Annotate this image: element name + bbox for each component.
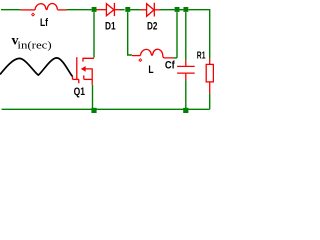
svg-text:L: L (148, 64, 153, 76)
svg-text:Lf: Lf (40, 17, 48, 29)
wire node A down to Q1 drain (93, 12, 95, 58)
bottom rail wire (2, 108, 210, 110)
wire D2 to node C (160, 9, 175, 11)
wire node D to top-right corner down to R1 (188, 10, 209, 59)
wire node C to node D (180, 9, 184, 11)
wire node C down to L tail (176, 12, 178, 58)
svg-text:Cf: Cf (165, 60, 175, 72)
svg-text:in(rec): in(rec) (17, 40, 52, 52)
svg-text:R1: R1 (197, 51, 206, 62)
resistor R1 (206, 59, 213, 94)
waveform vin(rec) (0, 58, 72, 76)
wire top-left green segment (1, 9, 21, 11)
polarity dot of Lf (32, 13, 35, 16)
wire L tail green (174, 57, 178, 59)
inductor L (132, 49, 174, 58)
wire node B to D2 (129, 9, 140, 11)
wire Lf to node A (67, 9, 92, 11)
wire node B down and left lead of L (128, 12, 132, 55)
polarity dot of L (139, 59, 142, 62)
wire node A to D1 (97, 9, 107, 11)
node A junction (92, 7, 97, 12)
node C junction (175, 7, 180, 12)
inductor Lf (21, 3, 67, 9)
capacitor Cf (177, 60, 195, 80)
diode D1 (106, 3, 120, 16)
diode D2 (141, 3, 161, 17)
wire Q1 source to bottom rail (92, 85, 94, 110)
wire Cf to bottom rail (185, 80, 187, 109)
node B junction (125, 7, 130, 12)
svg-text:D1: D1 (105, 21, 116, 33)
junction Cf bottom (183, 108, 188, 113)
svg-text:D2: D2 (147, 21, 157, 33)
transistor Q1 MOSFET (73, 57, 95, 85)
svg-text:Q1: Q1 (74, 86, 85, 98)
junction Q1 bottom (91, 108, 96, 113)
wire D1 to node B (120, 9, 125, 11)
node D junction (183, 7, 188, 12)
wire R1 to bottom rail (209, 93, 211, 109)
wire node D down to Cf (185, 12, 187, 60)
